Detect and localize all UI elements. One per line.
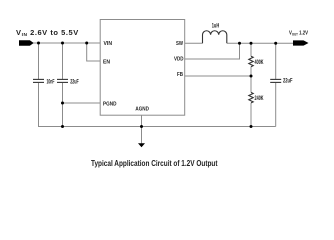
svg-text:VIN: VIN	[104, 41, 113, 47]
svg-text:22uF: 22uF	[283, 79, 293, 85]
svg-text:FB: FB	[177, 72, 183, 78]
svg-text:EN: EN	[103, 59, 110, 65]
svg-text:22uF: 22uF	[70, 80, 79, 86]
svg-text:1uH: 1uH	[212, 24, 220, 30]
svg-text:Typical Application Circuit of: Typical Application Circuit of 1.2V Outp…	[91, 158, 218, 168]
svg-text:10nF: 10nF	[47, 80, 55, 86]
svg-text:SW: SW	[176, 41, 184, 47]
svg-text:400K: 400K	[255, 60, 264, 66]
svg-text:AGND: AGND	[135, 107, 149, 113]
svg-text:VDD: VDD	[174, 56, 184, 62]
svg-text:PGND: PGND	[103, 101, 117, 107]
svg-text:240K: 240K	[255, 96, 264, 102]
